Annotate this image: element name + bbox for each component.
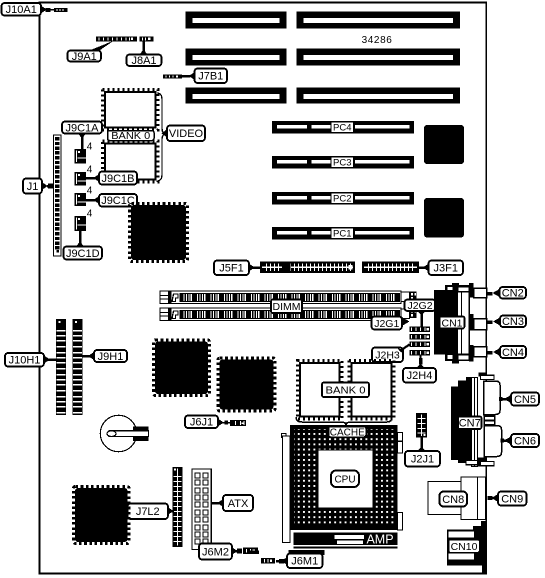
label J1 [23,179,54,194]
label J6M2 [199,544,242,560]
svg-text:CN8: CN8 [442,494,464,506]
connector CN8 body [428,477,486,520]
chip U-pci-2 [424,198,464,238]
connector J10A1 pins [46,8,68,12]
label J5F1 [214,261,260,276]
PCI slot PC3 [272,156,414,169]
port CN4 [474,347,487,357]
pin 4 label of J9C1B [87,165,93,176]
svg-text:J9H1: J9H1 [98,351,124,363]
svg-text:J9C1B: J9C1B [101,173,134,185]
label J9A1 [68,41,115,63]
connector J6M1 [250,551,275,564]
label J9C1C [86,194,137,207]
label J7B1 [182,69,227,84]
socket tab right 1 [398,433,403,454]
svg-text:J2H3: J2H3 [375,350,400,362]
DIMM socket 1 [160,291,417,304]
label CN7 [458,417,482,430]
connector CN7 body [451,373,487,467]
connector header J5F1 [260,262,355,274]
chip U-video-1 [103,90,159,131]
label BANK 0 (cache) [322,383,369,398]
svg-text:AMP: AMP [366,533,393,547]
SIMM socket J10H1 [56,319,66,415]
label J8A1 [127,42,162,68]
label J9C1A [62,122,102,150]
svg-text:J2G2: J2G2 [407,300,432,312]
jumper J9C1A [75,149,87,164]
connector ATX power [192,469,211,550]
label PC3 [331,157,354,169]
jumper block row 2 [410,334,431,339]
chip U-bottom-left [74,487,130,544]
label CN1 [440,317,465,330]
svg-text:CN7: CN7 [459,418,481,430]
svg-text:ATX: ATX [228,498,249,510]
svg-text:J7L2: J7L2 [136,506,160,518]
label J9C1D [64,231,103,260]
connector J7B1 [163,74,182,78]
svg-text:J2G1: J2G1 [374,318,399,330]
svg-text:CN3: CN3 [502,316,524,328]
svg-text:CN2: CN2 [502,288,524,300]
label CN6 [501,434,540,447]
label PC1 [331,228,354,240]
svg-text:PC1: PC1 [333,229,351,240]
connector J6M2 [243,548,258,555]
svg-text:J3F1: J3F1 [434,263,458,275]
bar below AMP [289,550,325,555]
svg-text:4: 4 [87,186,93,197]
label J2H3 [372,345,410,363]
label PC4 [331,122,354,134]
label J6M1 [276,554,323,569]
label J10H1 [5,353,56,367]
connector J2J1 [416,413,427,438]
label CN2 [488,287,527,300]
chip U-mid-2 [218,358,275,411]
svg-text:PC3: PC3 [333,158,351,169]
CN7 tab bottom1 [466,461,478,465]
svg-text:J6M1: J6M1 [291,556,318,568]
label DIMM [271,300,302,314]
connector CN10 body [447,521,487,573]
jumper block row 3 (J2H3) [410,342,431,347]
label VIDEO [162,126,206,142]
socket tab right 2 [398,513,403,531]
svg-text:J8A1: J8A1 [131,55,156,67]
jumper block row 4 (J2H4) [410,350,431,355]
label CN8 [440,492,468,507]
label CPU [331,471,359,488]
port CN5 dsub [484,381,501,415]
text 34286 [362,35,393,46]
ISA slot row 3 short bar [186,88,287,104]
ISA slot row 2 short bar [186,49,287,66]
svg-text:CN6: CN6 [514,435,536,447]
svg-text:PC4: PC4 [333,123,351,134]
svg-text:J2J1: J2J1 [411,454,434,466]
connector J1 strip [54,135,62,256]
label CN4 [488,346,527,359]
connector header J3F1 [362,262,419,274]
svg-text:J6J1: J6J1 [190,417,213,429]
svg-text:PC2: PC2 [333,194,351,205]
port CN6 dsub [484,426,502,457]
svg-text:CN9: CN9 [501,493,523,505]
label J3F1 [419,261,463,276]
DIMM socket 2 [160,308,417,321]
svg-text:DIMM: DIMM [273,301,301,313]
label CN10 [449,540,480,553]
svg-text:J9C1D: J9C1D [66,248,100,260]
svg-text:4: 4 [87,142,93,153]
pin 4 label of J9C1C [87,186,93,197]
svg-text:CN5: CN5 [514,394,536,406]
svg-text:VIDEO: VIDEO [169,128,204,140]
ISA slot row 3 long bar [297,88,461,104]
svg-text:J10H1: J10H1 [9,355,41,367]
label CN5 [499,393,539,406]
port CN3 [474,319,487,330]
label J2G2 [405,300,436,327]
label J2G1 [372,317,410,330]
CN7 rail [472,378,478,467]
svg-text:4: 4 [87,165,93,176]
AMP power bar [294,533,398,549]
jumper block row 1 (J2G2) [410,326,431,331]
CPU socket [290,425,398,530]
label BANK 0 (video) [108,131,155,143]
svg-text:J9A1: J9A1 [72,51,97,63]
label J9C1B [86,172,137,185]
ISA slot row 1 long bar [297,12,461,29]
svg-text:J6M2: J6M2 [202,546,229,558]
chip U-qfp-1 [130,204,188,262]
svg-text:34286: 34286 [362,35,393,46]
label J2H4 [403,355,436,382]
connector J9A1 [96,36,137,41]
svg-text:J1: J1 [27,181,39,193]
chip U-video-2 [103,141,159,182]
CN7 tab bottom2 [481,462,495,466]
label CN9 [488,492,527,506]
svg-text:CPU: CPU [334,474,355,485]
label PC2 [331,193,354,205]
chip U-mid-1 [154,340,210,396]
jumper J9C1C [75,193,87,206]
ZIF lever [282,434,291,543]
brace for VIDEO [157,93,166,181]
chip cache-2 [349,361,394,420]
label J10A1 [2,3,47,16]
PCI slot PC1 [272,227,414,240]
jumper J9C1B [75,172,87,186]
label J7L2 [128,504,175,520]
label J9H1 [83,350,128,363]
svg-text:CN1: CN1 [441,317,462,329]
SIMM socket J9H1 [73,319,83,415]
svg-text:J10A1: J10A1 [6,4,37,16]
CN7 mid tabs [484,416,495,425]
chip U-pci-1 [424,125,464,164]
svg-text:J2H4: J2H4 [407,370,433,382]
port CN2 [474,288,487,298]
connector J7L2 [173,467,183,547]
label CACHE [329,427,367,439]
PCI slot PC4 [272,121,414,134]
svg-text:J9C1A: J9C1A [65,122,99,134]
chip cache-1 [298,361,343,420]
pin 4 label of J9C1A [87,142,93,153]
connector CN1 body [434,283,474,364]
svg-text:J7B1: J7B1 [198,71,223,83]
battery BT1 [100,415,148,451]
label J6J1 [185,416,230,429]
pin 4 label of J9C1D [87,209,93,220]
connector J6J1 [230,420,246,426]
connector J8A1 [140,36,154,41]
svg-text:4: 4 [87,209,93,220]
ISA slot row 2 long bar [297,49,461,66]
brace for CACHE [296,417,392,425]
label J2J1 [405,438,440,467]
svg-text:BANK 0: BANK 0 [111,131,150,142]
svg-text:CN10: CN10 [451,541,478,553]
svg-text:CACHE: CACHE [330,427,365,438]
CN7 tab top [481,375,495,379]
label ATX [212,495,254,511]
svg-text:J5F1: J5F1 [219,263,243,275]
label CN3 [488,316,527,329]
svg-text:BANK 0: BANK 0 [326,385,366,397]
svg-text:CN4: CN4 [502,347,524,359]
ISA slot row 1 short bar [186,12,287,29]
PCI slot PC2 [272,192,414,205]
jumper J9C1D [75,216,87,231]
